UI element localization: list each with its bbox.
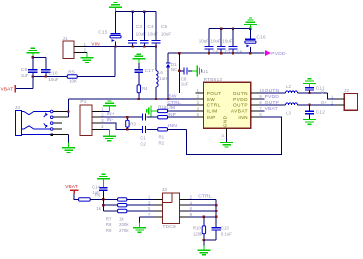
- node: [131, 11, 133, 13]
- wire: [115, 42, 117, 47]
- svg-text:SW: SW: [168, 94, 176, 100]
- wire: [67, 99, 69, 117]
- wire: [16, 88, 33, 90]
- svg-text:200k: 200k: [119, 222, 129, 227]
- ground: [309, 83, 311, 87]
- svg-text:C10: C10: [48, 71, 58, 77]
- svg-text:VBAT: VBAT: [65, 184, 78, 189]
- svg-text:C14: C14: [92, 184, 101, 189]
- svg-text:R1: R1: [159, 135, 165, 140]
- svg-text:10uF: 10uF: [222, 39, 233, 44]
- wire: [209, 28, 250, 30]
- svg-text:OUTN: OUTN: [233, 91, 248, 96]
- pin 7: [251, 110, 259, 112]
- ground: [68, 135, 70, 143]
- node: [308, 104, 310, 106]
- pin 9: [251, 98, 259, 100]
- svg-text:270k: 270k: [119, 228, 129, 233]
- connector P1: [80, 105, 92, 136]
- resistor R3: [126, 117, 128, 120]
- svg-text:120k: 120k: [193, 231, 203, 236]
- capacitor C14: [99, 187, 107, 188]
- wire VIN rail: [86, 46, 156, 48]
- net PVDD: [259, 98, 264, 100]
- svg-text:1uF: 1uF: [21, 73, 29, 78]
- resistor R8: [118, 204, 127, 207]
- svg-text:AVBAT: AVBAT: [231, 109, 248, 114]
- svg-text:CTRL: CTRL: [198, 194, 212, 200]
- node: [138, 98, 140, 100]
- node: [308, 92, 310, 94]
- pin 2: [74, 51, 87, 53]
- net IN-: [101, 123, 142, 129]
- svg-text:SW: SW: [207, 97, 216, 102]
- svg-text:10K: 10K: [69, 79, 77, 84]
- svg-text:J2: J2: [344, 88, 350, 94]
- node: [32, 56, 34, 58]
- svg-text:P1: P1: [80, 99, 86, 105]
- pin 3: [92, 122, 101, 124]
- net CTRL: [189, 198, 217, 200]
- svg-text:J3: J3: [162, 187, 168, 193]
- svg-text:U1: U1: [202, 69, 209, 75]
- capacitor C7: [220, 29, 222, 46]
- resistor R9: [118, 209, 127, 212]
- svg-text:INP: INP: [167, 112, 176, 118]
- node: [32, 75, 34, 77]
- svg-text:OUTP: OUTP: [233, 103, 248, 108]
- svg-text:POUT: POUT: [207, 91, 222, 96]
- node: [67, 110, 69, 112]
- node: [203, 239, 205, 241]
- pin 2: [92, 116, 101, 118]
- svg-text:O+: O+: [321, 100, 327, 105]
- node: [215, 204, 217, 206]
- connector J3: [162, 193, 179, 224]
- ground: [226, 138, 228, 143]
- wire: [259, 104, 286, 106]
- svg-text:O-: O-: [321, 89, 326, 94]
- svg-text:1uF: 1uF: [181, 81, 189, 86]
- resistor R1: [158, 116, 168, 119]
- svg-text:10uF: 10uF: [48, 77, 59, 82]
- wire: [297, 104, 336, 106]
- jack ring contact: [21, 126, 50, 129]
- node: [178, 70, 180, 72]
- wire: [77, 76, 115, 78]
- inductor L3: [286, 103, 298, 105]
- ground: [203, 240, 205, 246]
- net CTRL: [167, 104, 195, 106]
- capacitor C16: [249, 29, 251, 39]
- svg-text:L6: L6: [158, 70, 163, 75]
- resistor R10: [203, 217, 205, 226]
- svg-text:PVDD: PVDD: [265, 94, 280, 100]
- pin 1: [196, 92, 204, 94]
- svg-text:C13: C13: [221, 226, 230, 231]
- ground: [32, 53, 34, 58]
- pin 2: [196, 98, 204, 100]
- resistor R2: [158, 128, 168, 131]
- resistor R11 ILIM: [151, 110, 158, 112]
- inductor L2: [286, 91, 298, 93]
- svg-text:C4: C4: [147, 24, 154, 30]
- pin GND: [226, 128, 228, 137]
- svg-text:NC: NC: [171, 67, 177, 72]
- jack tip contact: [21, 112, 50, 115]
- svg-text:1uH: 1uH: [159, 76, 167, 81]
- svg-text:10uF: 10uF: [161, 31, 172, 36]
- jack switch arrow: [44, 123, 47, 126]
- wire: [74, 194, 78, 200]
- ground: [192, 70, 197, 72]
- svg-text:1uF: 1uF: [92, 190, 100, 195]
- svg-text:R10: R10: [193, 226, 202, 231]
- svg-text:ILIM: ILIM: [165, 105, 175, 111]
- node: [178, 52, 180, 54]
- capacitor C13: [212, 227, 221, 228]
- ground: [309, 114, 311, 119]
- inductor L6: [155, 47, 157, 71]
- capacitor C8: [232, 29, 234, 46]
- capacitor C5: [155, 12, 157, 40]
- pin 10: [251, 92, 259, 94]
- svg-text:VIN: VIN: [91, 41, 99, 46]
- net INN: [187, 117, 282, 154]
- capacitor C1: [142, 114, 143, 121]
- svg-text:VBAT: VBAT: [1, 87, 14, 92]
- pin 7: [154, 216, 163, 218]
- svg-text:11: 11: [221, 134, 225, 138]
- svg-text:R8: R8: [106, 222, 112, 227]
- pin 1: [74, 46, 86, 48]
- capacitor C17: [138, 63, 140, 69]
- svg-text:R4: R4: [142, 86, 148, 91]
- svg-text:ILIM: ILIM: [207, 109, 218, 114]
- svg-text:C3: C3: [136, 24, 143, 30]
- svg-text:IN-: IN-: [107, 117, 114, 123]
- svg-text:C1: C1: [140, 135, 146, 140]
- pin 2: [336, 104, 344, 106]
- net VBAT: [259, 110, 264, 112]
- ground: [86, 51, 88, 54]
- svg-text:INN: INN: [168, 123, 177, 129]
- svg-text:0.1uF: 0.1uF: [221, 231, 233, 236]
- wire: [33, 76, 67, 78]
- ground: [140, 216, 154, 218]
- svg-text:RTB513: RTB513: [204, 77, 223, 83]
- svg-text:TDC8: TDC8: [163, 224, 176, 230]
- pin 5: [196, 116, 204, 118]
- wire: [259, 92, 286, 94]
- svg-text:C16: C16: [256, 35, 266, 41]
- svg-text:L3: L3: [286, 111, 291, 116]
- ground: [102, 179, 104, 187]
- ground: [101, 128, 110, 130]
- jack pins: [50, 110, 53, 113]
- pin 6: [251, 116, 259, 118]
- pin 4: [180, 204, 189, 206]
- svg-text:IN+: IN+: [107, 111, 115, 117]
- svg-text:R7: R7: [106, 216, 112, 221]
- jack switch arrow: [44, 114, 47, 117]
- capacitor C12: [309, 105, 311, 111]
- capacitor C8a: [179, 70, 183, 72]
- pin 4: [196, 110, 204, 112]
- wire: [115, 12, 117, 34]
- node: [102, 198, 104, 200]
- wire: [178, 53, 180, 93]
- capacitor C2: [142, 126, 143, 133]
- svg-text:R3: R3: [130, 122, 136, 127]
- ground: [138, 59, 140, 63]
- pin 2: [180, 198, 189, 200]
- capacitor C10: [45, 57, 47, 69]
- svg-text:C15: C15: [98, 30, 108, 36]
- pin 3: [154, 204, 163, 206]
- svg-text:CTRL: CTRL: [207, 103, 221, 108]
- node: [220, 28, 222, 30]
- connector J1: [63, 41, 74, 58]
- pin 1: [336, 98, 344, 100]
- wire: [204, 239, 216, 241]
- pin 5: [154, 210, 163, 212]
- wire: [90, 198, 117, 200]
- capacitor C6: [208, 29, 210, 46]
- ground: [249, 25, 251, 29]
- capacitor C11: [305, 87, 314, 88]
- resistor R6: [79, 198, 91, 201]
- svg-text:R9: R9: [106, 228, 112, 233]
- resistor R5: [67, 75, 77, 78]
- pin 1: [154, 198, 163, 200]
- wire SW: [68, 98, 195, 100]
- svg-text:INP: INP: [207, 115, 216, 120]
- svg-text:GND: GND: [223, 115, 228, 127]
- svg-text:R5: R5: [68, 69, 75, 75]
- svg-text:1k: 1k: [96, 206, 101, 211]
- op-amp U1 RTB513: [204, 82, 251, 128]
- pin 6: [180, 210, 189, 212]
- resistor R4: [137, 85, 140, 93]
- diode D1: [167, 53, 169, 63]
- pin 1: [92, 111, 101, 113]
- jack sleeve: [21, 134, 50, 136]
- wire: [33, 56, 46, 58]
- wire: [116, 11, 157, 13]
- svg-text:C2: C2: [140, 141, 146, 146]
- svg-text:C17: C17: [145, 68, 155, 74]
- svg-text:1k: 1k: [119, 216, 124, 221]
- svg-text:R2: R2: [159, 141, 165, 146]
- ground: [101, 111, 110, 113]
- wire PVDD rail: [168, 52, 265, 54]
- ground: [115, 7, 117, 12]
- power PVDD arrow: [265, 50, 271, 56]
- capacitor C15: [110, 33, 120, 34]
- capacitor C9: [32, 57, 34, 69]
- pin 8: [180, 216, 189, 218]
- svg-text:J1: J1: [62, 36, 68, 42]
- pin 4: [92, 128, 101, 130]
- pin 8: [251, 104, 259, 106]
- svg-text:VBAT: VBAT: [265, 106, 278, 112]
- svg-text:L2: L2: [286, 84, 291, 89]
- svg-text:INN: INN: [238, 115, 248, 120]
- capacitor C3: [132, 12, 134, 40]
- capacitor C4: [143, 12, 145, 40]
- resistor R7: [118, 198, 127, 201]
- svg-text:PVDD: PVDD: [271, 51, 286, 57]
- svg-text:PVDD: PVDD: [233, 97, 248, 102]
- wire: [102, 199, 104, 211]
- net IN+: [101, 116, 142, 118]
- svg-text:C12: C12: [316, 109, 326, 115]
- node: [126, 116, 128, 118]
- wire: [297, 92, 327, 94]
- svg-text:J4: J4: [15, 105, 21, 111]
- connector J2: [344, 94, 357, 111]
- svg-text:10uF: 10uF: [211, 39, 222, 44]
- node: [114, 45, 116, 47]
- svg-text:CTRL: CTRL: [167, 100, 181, 106]
- svg-text:C5: C5: [161, 24, 168, 30]
- wire: [189, 204, 217, 206]
- svg-text:10uF: 10uF: [199, 39, 210, 44]
- pin 3: [196, 104, 204, 106]
